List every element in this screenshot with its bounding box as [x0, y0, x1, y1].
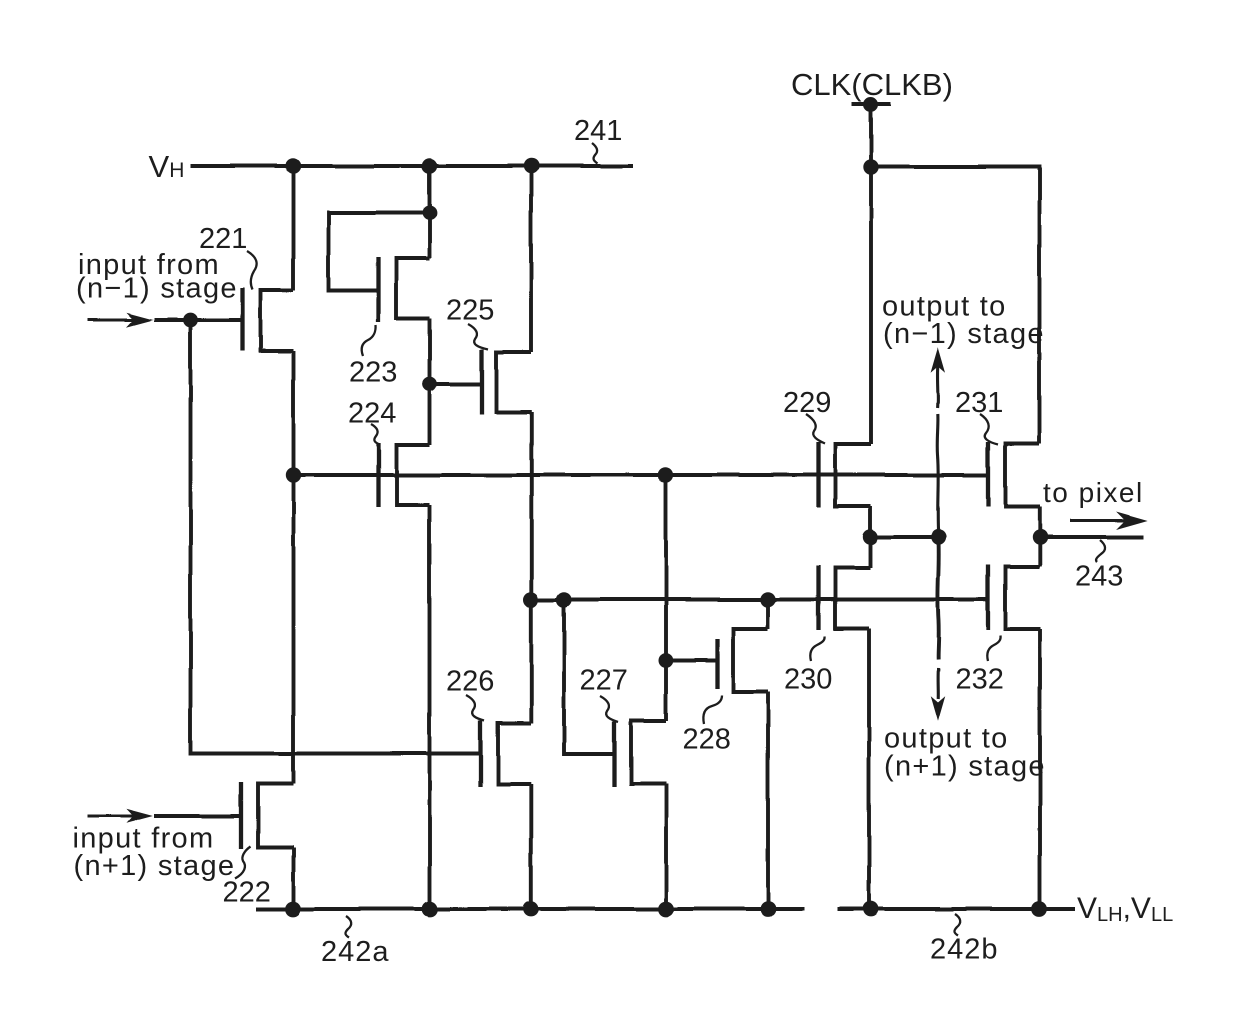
leader label 224 — [371, 424, 380, 445]
svg-text:243: 243 — [1075, 561, 1123, 593]
svg-text:(n+1) stage: (n+1) stage — [74, 850, 236, 882]
junction node A left — [286, 467, 301, 482]
svg-text:VH: VH — [149, 149, 185, 184]
svg-text:to pixel: to pixel — [1043, 477, 1144, 508]
svg-text:CLK(CLKB): CLK(CLKB) — [791, 67, 953, 102]
wire transistor 221 source down to node line — [292, 351, 296, 475]
junction VH-225 riser — [523, 158, 538, 173]
wire transistor 223 source down to node 384 — [428, 319, 432, 385]
leader label 231 — [980, 414, 998, 445]
svg-text:228: 228 — [683, 724, 731, 756]
wire CLK terminal tick — [852, 102, 892, 106]
leader label 222 — [235, 847, 251, 879]
wire transistor 231 source to 232 drain through pixel node — [1038, 507, 1042, 567]
junction diode loop 223 — [422, 206, 437, 221]
junction output node 229/230 — [863, 529, 878, 544]
junction rail-227 — [658, 901, 674, 917]
junction 228 gate tap — [659, 653, 674, 668]
junction VH-221 — [286, 158, 301, 173]
arrow line input (n+1) — [87, 815, 136, 818]
svg-text:241: 241 — [574, 115, 622, 147]
arrowhead input from (n+1) stage — [130, 811, 150, 822]
leader label 241 — [592, 143, 598, 164]
arrowhead output to (n-1) stage — [932, 351, 944, 371]
wire node A down to transistor 227 drain — [664, 475, 668, 721]
junction node A / 227 branch — [658, 467, 673, 482]
transistor 229 — [819, 442, 872, 507]
leader label 221 — [247, 251, 257, 290]
wire output node to arrow node — [871, 535, 939, 539]
junction VH-223 riser — [422, 158, 437, 173]
wire CLK branch right and down to transistor 231 drain — [871, 167, 1040, 444]
wire node 384 down to transistor 224 drain — [428, 384, 432, 445]
wire transistor 222 source to bottom rail — [292, 848, 296, 910]
wire gate lead node 384 to transistor 225 — [430, 382, 483, 386]
transistor 222 — [241, 783, 294, 850]
transistor 226 — [481, 721, 532, 788]
leader label 226 — [466, 695, 484, 721]
leader label 242a — [345, 916, 351, 938]
arrowhead output to (n+1) stage — [932, 699, 944, 719]
leader label 230 — [810, 637, 824, 662]
svg-text:231: 231 — [955, 387, 1003, 419]
junction rail-228 — [760, 901, 776, 917]
svg-text:225: 225 — [446, 295, 494, 327]
junction rail-230 — [863, 901, 879, 917]
wire VH to junction at 213 — [428, 166, 432, 259]
arrow line input (n-1) — [88, 319, 137, 322]
leader label 229 — [806, 414, 825, 444]
transistor 228 — [718, 629, 769, 692]
junction rail-226 — [523, 901, 539, 917]
wire transistor 226 source to bottom rail — [529, 785, 533, 910]
arrowhead input from (n-1) stage — [130, 315, 150, 326]
junction input (n-1) — [183, 313, 198, 328]
wire input from (n+1) stage to gate of 222 — [155, 814, 242, 818]
wire node line down to transistor 222 drain — [292, 475, 296, 784]
svg-text:232: 232 — [956, 664, 1004, 696]
wire bottom rail 242a — [257, 907, 805, 911]
wire output arrow line down to (n+1) stage — [936, 537, 941, 659]
wire VH to transistor 221 drain — [292, 166, 296, 290]
leader label 228 — [703, 696, 722, 725]
leader label 227 — [600, 696, 618, 722]
transistor 221 — [243, 288, 294, 352]
svg-text:227: 227 — [580, 665, 628, 697]
node CLK terminal — [864, 97, 879, 112]
leader label 232 — [987, 636, 1000, 662]
wire VH rail 241 — [191, 164, 634, 168]
wire pixel node output 243 — [1040, 535, 1143, 539]
wire input from (n-1) stage to gate of 221 — [154, 318, 243, 322]
junction CLK branch — [863, 159, 878, 174]
wire transistor 227 source to bottom rail — [664, 784, 668, 910]
svg-text:226: 226 — [446, 666, 494, 698]
transistor 230 — [819, 566, 871, 631]
transistor 232 — [988, 565, 1041, 631]
svg-text:(n+1) stage: (n+1) stage — [884, 751, 1046, 783]
junction rail-224 — [422, 901, 438, 917]
wire diode loop: junction 213 left and down to gate of 223 — [329, 213, 430, 290]
svg-text:VLH,VLL: VLH,VLL — [1077, 892, 1173, 926]
junction node B / 228 drain — [760, 592, 775, 607]
svg-text:229: 229 — [783, 387, 831, 419]
svg-text:224: 224 — [348, 398, 396, 430]
svg-text:223: 223 — [349, 357, 397, 389]
arrow line to pixel — [1070, 519, 1126, 522]
transistor 227 — [615, 721, 667, 788]
svg-text:(n−1) stage: (n−1) stage — [76, 273, 238, 305]
transistor 223 — [379, 257, 430, 322]
leader label 223 — [362, 325, 376, 356]
wire output arrow line up to (n-1) stage — [937, 414, 938, 537]
wire transistor 228 drain up to node line B — [766, 600, 770, 630]
leader label 225 — [468, 324, 488, 350]
wire node B down and gate lead to transistor 227 — [564, 600, 615, 755]
junction output arrow node — [931, 529, 946, 544]
junction rail-232 — [1032, 901, 1048, 917]
wire bottom rail 242b — [838, 907, 1076, 911]
wire transistor 228 source to bottom rail — [766, 692, 770, 909]
wire VH to transistor 225 drain — [529, 166, 533, 353]
arrowhead to pixel — [1119, 514, 1144, 528]
wire transistor 232 source to bottom rail — [1038, 630, 1042, 910]
junction rail-222 — [285, 901, 301, 917]
transistor 231 — [989, 442, 1041, 507]
svg-text:242b: 242b — [930, 934, 999, 966]
svg-text:230: 230 — [784, 664, 832, 696]
wire input node down and gate lead to transistor 226 — [191, 320, 481, 754]
leader label 243 — [1096, 540, 1105, 562]
transistor 224 — [379, 443, 430, 507]
wire transistor 224 source to bottom rail — [428, 505, 432, 909]
wire CLK vertical to transistor 229 drain — [869, 105, 873, 445]
leader label 242b — [954, 914, 960, 936]
svg-text:(n−1) stage: (n−1) stage — [883, 318, 1045, 350]
junction pixel output node — [1032, 529, 1047, 544]
wire node line A (gates of 224 229 231) — [294, 473, 989, 477]
junction 223 source / 225 gate — [422, 377, 437, 392]
wire transistor 225 source down to node line B — [529, 413, 533, 724]
svg-text:242a: 242a — [321, 936, 390, 968]
wire transistor 230 source to bottom rail — [867, 629, 871, 910]
transistor 225 — [482, 350, 531, 416]
junction node B / 227 gate branch — [556, 592, 571, 607]
wire node line B (gates of 230 232) — [531, 598, 989, 602]
svg-text:222: 222 — [223, 877, 271, 909]
junction node B left — [523, 592, 538, 607]
wire gate lead node 660 to transistor 228 — [666, 659, 718, 663]
wire transistor 229 source to 230 drain through output node — [869, 506, 873, 568]
